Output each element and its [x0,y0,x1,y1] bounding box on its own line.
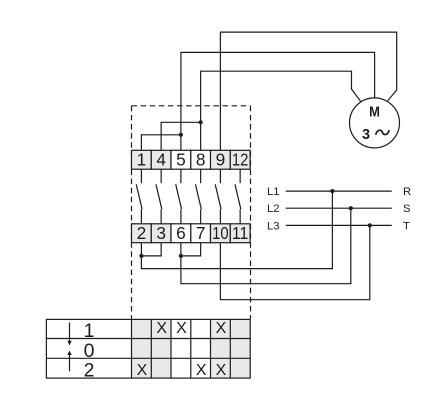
wire terminal9 to motor right lead [220,32,396,150]
terminal 11 label [232,223,249,243]
terminal 6 label [176,223,186,243]
svg-text:1: 1 [137,150,147,170]
terminal row bottom (2 3 6 7 10 11) [132,224,251,243]
svg-text:4: 4 [156,150,166,170]
terminal 12 label [232,150,249,170]
svg-text:0: 0 [84,340,95,362]
svg-text:5: 5 [176,150,186,170]
svg-text:12: 12 [232,150,249,170]
junction dot node V [199,120,203,124]
X mark pos1 col3 [176,320,187,337]
motor M 3-phase [350,98,400,148]
svg-text:1: 1 [84,320,95,342]
terminal row top (1 4 5 8 9 12) [132,150,251,169]
junction dot node X [179,254,183,258]
svg-text:M: M [369,105,380,121]
svg-text:3: 3 [156,223,166,243]
svg-text:2: 2 [84,360,95,382]
svg-text:X: X [216,362,227,379]
terminal 8 label [196,150,206,170]
svg-text:10: 10 [212,223,229,243]
svg-text:T: T [403,220,410,232]
svg-text:L3: L3 [267,220,279,232]
X mark pos1 col5 [216,320,227,337]
X mark pos2 col1 [137,362,148,379]
wire terminal8 to motor left lead [201,71,362,150]
wire terminals 6-7 junction to L2 [181,208,351,284]
X mark pos2 col4 [196,362,207,379]
L2 supply line [267,203,410,215]
terminal 9 label [216,150,226,170]
wire terminals 2-3 junction to L1 [141,191,332,269]
terminal 2 label [137,223,147,243]
terminal 10 label [212,223,229,243]
svg-text:8: 8 [196,150,206,170]
junction dot node U [179,133,183,137]
position 2 label [84,360,95,382]
svg-text:S: S [403,203,410,215]
terminal 7 label [196,223,206,243]
junction dot L2 tap [349,206,353,210]
svg-text:2: 2 [137,223,147,243]
svg-text:R: R [403,186,411,198]
wire terminal1 to terminal5 net [141,135,181,151]
terminal 4 label [156,150,166,170]
wire terminal 10 to L3 [220,225,369,299]
svg-text:3: 3 [362,127,370,143]
terminal 5 label [176,150,186,170]
svg-text:L1: L1 [267,186,279,198]
L1 supply line [267,186,411,198]
position 0 label [84,340,95,362]
junction dot L3 tap [368,223,372,227]
wire terminal5 to motor middle lead [181,52,375,150]
svg-text:X: X [137,362,148,379]
switching table grid [46,319,250,378]
wire terminal4 to terminal8 net [161,122,201,150]
contact pole 3 (terminals 5-6) [176,169,182,224]
svg-text:X: X [176,320,187,337]
contact pole 6 (terminals 12-11) [235,169,241,224]
position 1 label [84,320,95,342]
junction dot node W [139,254,143,258]
svg-text:9: 9 [216,150,226,170]
contact pole 2 (terminals 4-3) [156,169,162,224]
contact pole 5 (terminals 9-10) [215,169,221,224]
terminal 3 label [156,223,166,243]
svg-text:X: X [156,320,167,337]
switch position arrow [67,323,71,372]
svg-text:X: X [216,320,227,337]
dashed enclosure (switch boundary) [132,106,251,319]
svg-text:6: 6 [176,223,186,243]
svg-text:11: 11 [232,223,249,243]
junction dot L1 tap [330,189,334,193]
terminal 1 label [137,150,147,170]
contact pole 1 (terminals 1-2) [136,169,142,224]
X mark pos1 col2 [156,320,167,337]
contact pole 4 (terminals 8-7) [195,169,201,224]
svg-text:X: X [196,362,207,379]
svg-text:L2: L2 [267,203,279,215]
L3 supply line [267,220,410,232]
X mark pos2 col5 [216,362,227,379]
svg-text:7: 7 [196,223,206,243]
